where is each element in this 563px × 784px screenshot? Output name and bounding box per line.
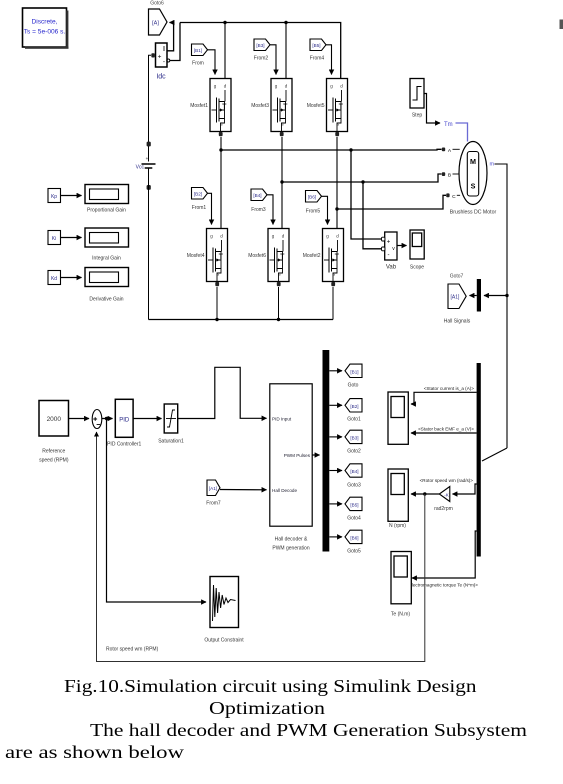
svg-text:[B2]: [B2] [194, 192, 202, 197]
source Step [410, 79, 424, 119]
wire phase B rail to motor [282, 174, 442, 182]
wire phase B vertical [281, 137, 283, 229]
svg-text:N (rpm): N (rpm) [389, 523, 406, 529]
node junction hall branch [505, 294, 508, 297]
svg-text:Mosfet2: Mosfet2 [303, 253, 321, 259]
svg-text:Brushless DC Motor: Brushless DC Motor [450, 210, 497, 216]
svg-text:Goto4: Goto4 [347, 516, 361, 522]
caption line 3 [90, 720, 527, 741]
svg-text:[A]: [A] [152, 21, 159, 27]
svg-text:[B1]: [B1] [350, 369, 358, 374]
svg-text:M: M [470, 157, 476, 166]
transistor Mosfet5 [307, 79, 348, 137]
svg-text:[B5]: [B5] [350, 502, 358, 507]
svg-text:Goto3: Goto3 [347, 483, 361, 489]
wire Saturation1 to subsystem with bump [178, 367, 267, 418]
wire Vcc branch from Idc input [149, 55, 152, 161]
goto tag Goto1 [B2] [345, 399, 362, 423]
scope Te (N.m) [391, 552, 411, 618]
svg-text:[B6]: [B6] [350, 535, 358, 540]
svg-text:Goto6: Goto6 [150, 1, 164, 7]
svg-text:From4: From4 [310, 56, 325, 62]
svg-text:From2: From2 [254, 56, 269, 62]
svg-text:-K: -K [444, 492, 449, 497]
node phase B junction [280, 180, 283, 183]
wire Reference to sum [69, 418, 90, 420]
wire torque from bus to Te scope [412, 531, 477, 578]
svg-text:m: m [490, 162, 495, 168]
wire Mosfet6 source to ground rail [278, 287, 280, 320]
goto tag Goto5 [B6] [345, 530, 362, 554]
svg-text:From5: From5 [306, 209, 321, 215]
wire PWM Pulses to demux [312, 454, 319, 456]
svg-text:Ts = 5e-006 s.: Ts = 5e-006 s. [24, 29, 66, 36]
wire From7 to Hall Decode input [220, 489, 267, 491]
caption line 4 [5, 742, 184, 763]
transistor Mosfet1 [190, 79, 231, 137]
wire From2 to Mosfet3 gate [270, 45, 276, 75]
caption line 2 [209, 698, 325, 719]
svg-text:+: + [158, 54, 162, 61]
svg-text:Mosfet1: Mosfet1 [190, 103, 208, 109]
constraint block Output Constraint [204, 577, 244, 644]
wire From4 to Mosfet5 gate [326, 45, 332, 75]
wire Tm to motor (selected blue) [456, 123, 468, 142]
svg-text:Scope: Scope [410, 265, 424, 271]
svg-text:+: + [146, 156, 149, 161]
svg-text:C: C [452, 194, 456, 200]
wire Step to Tm [424, 94, 440, 124]
from tag Kp [48, 189, 61, 203]
saturation Saturation1 [158, 404, 184, 445]
transistor Mosfet6 [248, 229, 289, 287]
svg-text:speed (RPM): speed (RPM) [39, 458, 69, 464]
sum block [92, 410, 102, 429]
goto tag Goto2 [B3] [345, 430, 362, 454]
wire demux to Goto5 [329, 536, 342, 538]
goto tag Goto7 [A1] [444, 274, 471, 325]
svg-text:[B3]: [B3] [350, 435, 358, 440]
wire branch to Output Constraint [107, 419, 207, 603]
wire From to Mosfet1 gate [208, 50, 216, 75]
svg-text:Reference: Reference [42, 449, 65, 455]
mux hall signals selector [477, 279, 481, 312]
wire phase A to Vab [351, 150, 382, 239]
svg-text:Goto: Goto [348, 383, 359, 389]
subsystem Hall decoder & PWM generation [270, 384, 312, 552]
wire hall branch to mux [484, 295, 507, 297]
scope stator signals [388, 392, 408, 444]
from tag From [B1] [192, 44, 208, 67]
svg-text:rad2rpm: rad2rpm [434, 506, 453, 512]
svg-text:Mosfet6: Mosfet6 [248, 253, 266, 259]
wire demux to Goto [329, 370, 342, 372]
from tag From1 [B2] [192, 188, 208, 212]
transistor Mosfet4 [187, 229, 228, 287]
svg-text:Output Constraint: Output Constraint [204, 638, 244, 644]
wire Mosfet2 source to ground rail [332, 287, 334, 320]
wire stator current to scope [411, 392, 477, 404]
svg-text:<Stator back EMF e_a (V)>: <Stator back EMF e_a (V)> [418, 427, 474, 432]
wire Idc i output to Goto6 [167, 23, 174, 51]
svg-text:Te (N.m): Te (N.m) [391, 612, 411, 618]
svg-text:PID Controller1: PID Controller1 [107, 442, 141, 448]
svg-text:S: S [471, 182, 476, 191]
svg-text:Mosfet5: Mosfet5 [307, 103, 325, 109]
svg-text:PID: PID [119, 418, 130, 424]
svg-text:2000: 2000 [47, 416, 62, 423]
svg-text:[B5]: [B5] [312, 43, 320, 48]
wire demux to Goto2 [329, 436, 342, 438]
svg-text:Idc: Idc [156, 74, 166, 81]
svg-text:Ki: Ki [52, 236, 56, 242]
wire phase B to Vab [363, 182, 382, 249]
svg-text:Saturation1: Saturation1 [158, 439, 184, 445]
svg-text:Goto2: Goto2 [347, 449, 361, 455]
svg-text:PWM Pulses: PWM Pulses [284, 453, 311, 458]
svg-text:<Electromagnetic torque Te (N*: <Electromagnetic torque Te (N*m)> [406, 583, 478, 588]
wire top DC+ rail [180, 23, 341, 79]
goto tag Goto4 [B5] [345, 497, 362, 521]
wire rotor speed from bus [453, 484, 477, 494]
svg-text:Mosfet3: Mosfet3 [251, 103, 269, 109]
wire motor m bus down right side [495, 164, 508, 448]
svg-text:Discrete,: Discrete, [31, 19, 57, 26]
wire rail down to Mosfet1 drain [224, 23, 226, 79]
constant Reference speed (RPM) [39, 401, 69, 464]
svg-text:A: A [448, 148, 452, 154]
svg-text:[A1]: [A1] [451, 295, 461, 301]
svg-text:Vcc: Vcc [136, 165, 145, 171]
wire From5 to Mosfet2 gate [322, 196, 328, 224]
svg-text:Hall Signals: Hall Signals [444, 319, 471, 325]
svg-text:[B6]: [B6] [308, 195, 316, 200]
from tag From5 [B6] [306, 191, 322, 215]
wire From3 to Mosfet6 gate [267, 195, 273, 225]
scope Scope [410, 230, 424, 271]
svg-text:Derivative Gain: Derivative Gain [89, 297, 123, 303]
from tag Ki [48, 231, 61, 245]
svg-text:Kd: Kd [51, 276, 57, 282]
wire demux to Goto1 [329, 404, 342, 406]
node junction feedback takeoff [423, 492, 426, 495]
node phase C junction [335, 207, 338, 210]
svg-text:[B1]: [B1] [194, 48, 202, 53]
svg-text:Hall Decode: Hall Decode [272, 488, 297, 493]
scope N (rpm) [388, 469, 408, 529]
wire Mosfet4 source to ground rail [216, 287, 218, 320]
wire phase C vertical [336, 137, 338, 229]
current sensor Idc [151, 43, 170, 81]
gain rad2rpm [434, 487, 453, 513]
node Vab tap phase B [361, 180, 364, 183]
wire phase A vertical [220, 137, 222, 229]
goto tag Goto6 [149, 1, 168, 36]
svg-text:Hall decoder &: Hall decoder & [275, 537, 308, 543]
wire bus diagonal into bus selector [482, 448, 507, 461]
display Integral Gain [85, 228, 129, 262]
controller PID Controller1 [107, 399, 141, 447]
node phase A junction [219, 148, 222, 151]
from tag From3 [B4] [251, 189, 267, 213]
wire phase C rail to motor [337, 195, 446, 209]
svg-text:Goto1: Goto1 [347, 417, 361, 423]
motor Brushless DC Motor [442, 142, 497, 216]
wire PID to Saturation1 [133, 418, 161, 420]
wire demux to Goto4 [329, 503, 342, 505]
svg-text:Kp: Kp [51, 194, 57, 200]
svg-text:-: - [388, 253, 390, 259]
wire Kd to display [61, 277, 82, 279]
svg-text:B: B [448, 173, 451, 179]
svg-text:+: + [387, 240, 391, 246]
from tag Kd [48, 271, 61, 285]
goto tag Goto [B1] [345, 364, 362, 388]
wire demux to Goto3 [329, 470, 342, 472]
wire ground return rail [149, 319, 334, 321]
svg-text:Mosfet4: Mosfet4 [187, 253, 205, 259]
svg-text:[B4]: [B4] [350, 469, 358, 474]
wire Vcc to ground rail [148, 168, 150, 320]
node junction on rail at Mosfet1 drain [223, 21, 226, 24]
from tag From2 [B3] [254, 39, 270, 62]
node junction output-constraint takeoff [105, 417, 108, 420]
svg-text:From1: From1 [192, 205, 207, 211]
wire Ki to display [61, 237, 82, 239]
from tag From7 [A1] [206, 480, 221, 507]
voltage sensor Vab [382, 232, 398, 271]
svg-text:From7: From7 [206, 501, 221, 507]
wire rail down to Mosfet3 drain [285, 23, 287, 79]
svg-text:<Rotor speed wm (rad/s)>: <Rotor speed wm (rad/s)> [420, 478, 474, 483]
svg-text:[B3]: [B3] [256, 43, 264, 48]
wire From1 to Mosfet4 gate [208, 193, 212, 224]
transistor Mosfet3 [251, 79, 292, 137]
from tag From4 [B5] [310, 39, 326, 62]
cropped port at right edge [560, 20, 563, 30]
svg-text:<Stator current is_a (A)>: <Stator current is_a (A)> [424, 386, 475, 391]
svg-text:-: - [163, 59, 165, 66]
bus selector bar [477, 363, 481, 557]
svg-text:From3: From3 [251, 207, 266, 213]
wire rad2rpm to N scope [411, 493, 439, 495]
svg-text:Tm: Tm [444, 122, 453, 128]
wire phase A rail to motor [221, 148, 442, 151]
goto tag Goto3 [B4] [345, 464, 362, 489]
node Vab tap phase A [349, 148, 352, 151]
svg-text:[A1]: [A1] [209, 486, 217, 491]
wire Idc minus to top DC rail [170, 23, 180, 61]
DC source Vcc [136, 142, 156, 190]
wire Kp to display [61, 195, 82, 197]
wire sum to PID [102, 418, 113, 420]
wire feedback rotor speed to sum [97, 432, 425, 662]
node junction on rail at Mosfet3 drain [284, 21, 287, 24]
svg-text:From: From [192, 61, 204, 67]
svg-text:Step: Step [412, 113, 423, 119]
wire mux to Goto7 [470, 295, 477, 297]
svg-text:Vab: Vab [386, 265, 397, 271]
caption line 1 [64, 676, 477, 697]
svg-text:PID Input: PID Input [272, 416, 292, 421]
node ground junction Mosfet4 [215, 318, 218, 321]
svg-text:Goto5: Goto5 [347, 549, 361, 555]
svg-text:[B4]: [B4] [253, 193, 261, 198]
powergui block (Discrete Ts=5e-006) [23, 8, 69, 49]
demux PWM pulses bar [323, 350, 330, 552]
node ground junction Mosfet6 [277, 318, 280, 321]
wire back EMF to scope [411, 432, 477, 434]
svg-text:Proportional Gain: Proportional Gain [87, 208, 126, 214]
svg-text:[B2]: [B2] [350, 404, 358, 409]
wire Vab to Scope [397, 245, 407, 247]
transistor Mosfet2 [303, 229, 344, 287]
svg-text:Goto7: Goto7 [450, 274, 464, 280]
display Proportional Gain [85, 185, 129, 214]
display Derivative Gain [85, 268, 129, 303]
svg-text:Integral Gain: Integral Gain [92, 256, 121, 262]
svg-text:Rotor speed wm (RPM): Rotor speed wm (RPM) [106, 647, 159, 653]
svg-text:PWM generation: PWM generation [272, 546, 309, 552]
